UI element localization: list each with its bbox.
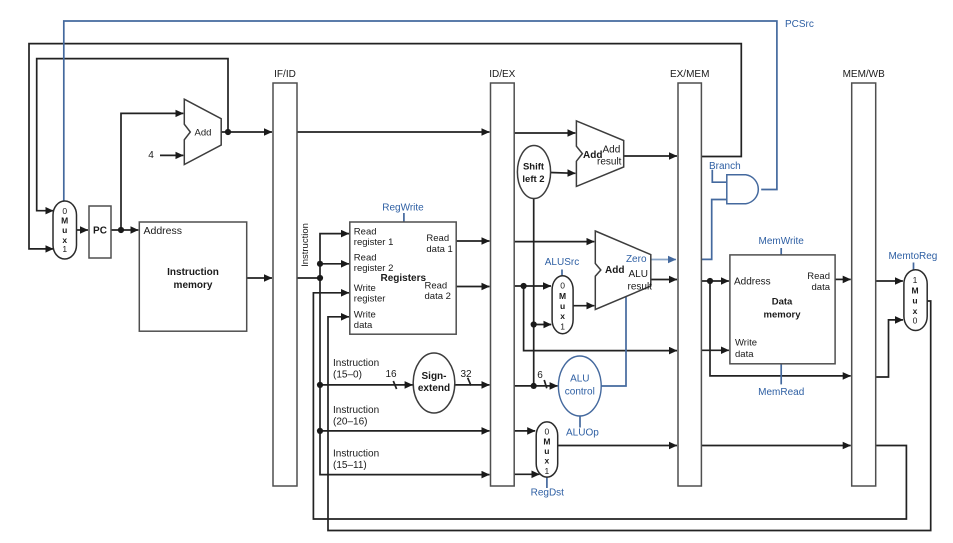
svg-text:M: M [61,216,68,226]
svg-text:Instruction: Instruction [333,358,379,369]
svg-text:data: data [735,349,754,360]
svg-text:Instruction: Instruction [333,405,379,416]
svg-text:PCSrc: PCSrc [785,19,814,30]
svg-text:Instruction: Instruction [167,267,219,278]
svg-text:memory: memory [764,310,802,321]
svg-text:0: 0 [560,281,565,291]
svg-text:Read: Read [426,233,449,244]
svg-text:Read: Read [807,271,830,282]
svg-text:MemtoReg: MemtoReg [888,251,937,262]
svg-text:register: register [354,294,386,305]
svg-text:u: u [560,301,565,311]
svg-text:1: 1 [62,244,67,254]
svg-text:0: 0 [913,315,918,325]
svg-text:ALUOp: ALUOp [566,428,599,439]
svg-text:Read: Read [354,252,377,263]
svg-text:Data: Data [772,297,793,308]
svg-text:MEM/WB: MEM/WB [843,69,886,80]
svg-text:Address: Address [144,225,183,237]
svg-text:(20–16): (20–16) [333,417,367,428]
svg-text:ALUSrc: ALUSrc [545,257,579,268]
svg-text:0: 0 [62,206,67,216]
svg-text:Add: Add [195,128,212,139]
svg-text:Read: Read [354,226,377,237]
svg-text:RegDst: RegDst [531,488,565,499]
svg-text:result: result [628,281,653,292]
svg-text:Instruction: Instruction [333,449,379,460]
svg-text:data 1: data 1 [426,244,452,255]
svg-text:4: 4 [148,150,154,161]
svg-text:u: u [912,296,917,306]
svg-text:ALU: ALU [629,269,648,280]
svg-text:Read: Read [425,280,448,291]
svg-text:IF/ID: IF/ID [274,69,296,80]
svg-text:result: result [597,156,622,167]
svg-text:EX/MEM: EX/MEM [670,69,709,80]
svg-text:data: data [812,282,831,293]
svg-text:ID/EX: ID/EX [489,69,515,80]
svg-text:1: 1 [545,466,550,476]
svg-text:ALU: ALU [570,374,589,385]
svg-text:(15–0): (15–0) [333,370,362,381]
svg-text:Add: Add [603,144,621,155]
svg-text:Branch: Branch [709,161,741,172]
svg-text:Address: Address [734,277,771,288]
svg-text:memory: memory [174,280,213,291]
svg-text:PC: PC [93,226,107,237]
svg-text:Write: Write [735,338,757,349]
svg-text:Zero: Zero [626,254,647,265]
svg-text:16: 16 [385,369,397,380]
svg-text:x: x [560,311,565,321]
svg-text:0: 0 [545,427,550,437]
svg-text:data: data [354,320,373,331]
svg-text:M: M [911,285,918,295]
svg-text:register 1: register 1 [354,237,394,248]
svg-text:extend: extend [418,383,450,394]
svg-text:Add: Add [605,265,624,276]
svg-text:MemRead: MemRead [758,387,804,398]
svg-text:x: x [545,456,550,466]
svg-text:MemWrite: MemWrite [759,236,805,247]
svg-text:M: M [559,291,566,301]
svg-text:RegWrite: RegWrite [382,203,424,214]
svg-text:control: control [565,387,595,398]
svg-text:u: u [62,225,67,235]
svg-text:Instruction: Instruction [300,223,311,267]
svg-text:Write: Write [354,310,376,321]
svg-text:32: 32 [460,369,472,380]
svg-text:(15–11): (15–11) [333,460,367,471]
svg-text:Sign-: Sign- [422,371,447,382]
svg-text:Write: Write [354,283,376,294]
svg-text:data 2: data 2 [425,291,451,302]
svg-text:6: 6 [537,370,543,381]
svg-text:M: M [543,437,550,447]
svg-text:left 2: left 2 [522,174,544,185]
svg-text:Registers: Registers [381,273,427,284]
svg-text:u: u [544,446,549,456]
svg-text:Shift: Shift [523,161,545,172]
svg-text:1: 1 [913,275,918,285]
svg-text:1: 1 [560,322,565,332]
